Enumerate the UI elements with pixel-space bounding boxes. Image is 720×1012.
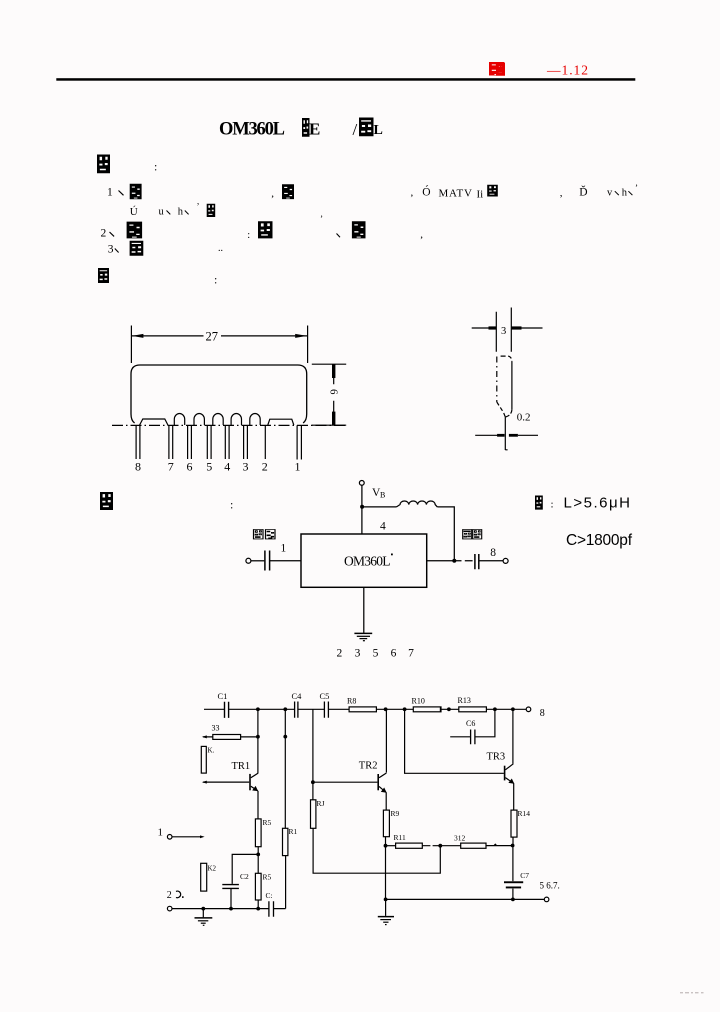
svg-text:C1: C1 xyxy=(218,691,228,701)
svg-text:..: .. xyxy=(218,243,223,254)
wire top rail xyxy=(204,708,526,710)
pin thickness dimension 0.2 xyxy=(475,434,538,436)
transistor Q2 TR2 xyxy=(313,761,387,793)
terminal 2 xyxy=(167,906,172,911)
svg-text:C6: C6 xyxy=(466,719,475,728)
svg-text:L: L xyxy=(374,123,383,138)
svg-text:R5: R5 xyxy=(263,873,272,882)
node output junction xyxy=(452,559,456,563)
wire TR3 collector riser xyxy=(512,709,514,763)
svg-text:Ú: Ú xyxy=(130,206,138,218)
svg-text::: : xyxy=(247,230,250,241)
wire C-out to terminal xyxy=(479,560,503,562)
resistor R11 xyxy=(386,833,441,848)
svg-text:6: 6 xyxy=(187,460,193,474)
pin bumps: left trapezoid xyxy=(140,419,168,425)
tick on rail near R10 right lead xyxy=(440,707,441,712)
node junction VB xyxy=(360,505,364,509)
height dimension "6" xyxy=(312,364,346,425)
transistor Q3 TR3 xyxy=(487,752,515,784)
capacitor C3 xyxy=(266,891,274,917)
ground left xyxy=(195,909,213,926)
svg-text:R8: R8 xyxy=(347,697,356,706)
junction R10 left/TR3 base feed xyxy=(403,707,407,711)
svg-text:h: h xyxy=(178,207,184,218)
svg-text:4: 4 xyxy=(224,460,230,474)
wire R5 to node xyxy=(257,847,259,874)
svg-text:6: 6 xyxy=(328,389,340,395)
capacitor C5 xyxy=(320,691,330,718)
junction C1/TR1 collector xyxy=(256,707,260,711)
svg-text:—1.12: —1.12 xyxy=(546,63,588,78)
svg-text:2: 2 xyxy=(337,648,343,660)
svg-text:R14: R14 xyxy=(518,809,531,818)
svg-text:C:: C: xyxy=(266,891,273,900)
resistor R10 xyxy=(412,697,442,712)
wire to C2 xyxy=(232,854,258,884)
wire bottom-left rail xyxy=(172,908,286,910)
right trapezoid xyxy=(268,419,294,425)
svg-text:3: 3 xyxy=(501,326,506,337)
svg-text:5: 5 xyxy=(206,460,212,474)
ground middle xyxy=(378,899,394,924)
svg-text:L>5.6μH: L>5.6μH xyxy=(564,495,631,512)
svg-text:2: 2 xyxy=(101,228,107,240)
svg-text:’: ’ xyxy=(635,183,638,193)
svg-text:33: 33 xyxy=(212,724,220,733)
svg-text:R11: R11 xyxy=(394,833,406,842)
side profile (dashed outline) xyxy=(501,355,509,357)
svg-text:OM360L: OM360L xyxy=(219,120,285,140)
svg-text::: : xyxy=(230,498,233,512)
wire C-in to pin1 xyxy=(270,560,301,562)
junction ground tap on left rail xyxy=(201,907,205,911)
svg-text:,: , xyxy=(271,188,274,200)
svg-text:R13: R13 xyxy=(458,696,471,705)
svg-text:6: 6 xyxy=(391,648,397,660)
resistor R3 xyxy=(202,724,258,740)
wire bottom rail xyxy=(386,898,545,900)
svg-text:5 6.7.: 5 6.7. xyxy=(540,881,560,891)
junction R13/C6 branch xyxy=(493,707,497,711)
svg-text:R1: R1 xyxy=(289,827,298,836)
junction C2 bottom xyxy=(229,907,233,911)
capacitor C1 xyxy=(218,691,229,718)
junction R9 line/bottom rail xyxy=(384,898,388,902)
resistor R8 xyxy=(347,697,376,712)
svg-text:C4: C4 xyxy=(292,691,303,701)
svg-text:Ii: Ii xyxy=(477,189,484,201)
svg-text:2: 2 xyxy=(262,460,268,474)
svg-text:OM360L: OM360L xyxy=(344,554,391,569)
output label (garbled CJK) xyxy=(463,530,472,539)
wire VB to inductor xyxy=(362,506,396,508)
capacitor C4 xyxy=(292,691,303,718)
node emitter divider xyxy=(256,853,260,857)
note: phi L>5.6uH xyxy=(535,495,633,550)
wire node to C7 xyxy=(512,846,514,882)
svg-text:7: 7 xyxy=(408,648,414,660)
terminal 1 input xyxy=(158,827,205,840)
svg-text:1: 1 xyxy=(107,187,113,199)
svg-text:R5: R5 xyxy=(263,818,272,827)
svg-text::: : xyxy=(214,273,217,287)
top width dimension "27" xyxy=(131,326,307,364)
svg-text::: : xyxy=(551,499,554,511)
svg-text:3: 3 xyxy=(108,244,114,256)
resistor R13 xyxy=(458,696,487,712)
svg-text:4: 4 xyxy=(380,521,386,533)
svg-text:C>1800pf: C>1800pf xyxy=(566,532,633,549)
transistor Q1 TR1 xyxy=(202,761,258,791)
resistor R14 xyxy=(511,809,530,837)
wire pin8 output xyxy=(427,560,473,562)
svg-text:1: 1 xyxy=(295,460,301,474)
ground pins label 2 3 5 6 7 xyxy=(337,648,415,660)
svg-text:1: 1 xyxy=(158,827,164,839)
svg-text:5: 5 xyxy=(373,648,379,660)
resistor R12 xyxy=(440,834,512,849)
svg-text:MATV: MATV xyxy=(439,187,473,199)
pin numbers xyxy=(135,460,301,474)
node R11/R12 xyxy=(438,844,442,848)
svg-text:1: 1 xyxy=(281,543,287,555)
junction R6 bottom xyxy=(256,907,260,911)
terminal pins 5 6 7 xyxy=(544,897,549,902)
svg-text:C7: C7 xyxy=(520,871,529,880)
wire TR2 collector riser xyxy=(385,709,387,772)
pins (double lines) xyxy=(136,425,140,459)
junction TR3 collector xyxy=(511,707,515,711)
svg-text:R10: R10 xyxy=(412,697,425,706)
input terminal xyxy=(246,558,251,563)
svg-text:,: , xyxy=(420,229,423,241)
wire C6 branch xyxy=(450,709,495,737)
svg-text:TR1: TR1 xyxy=(232,761,251,772)
svg-text:,: , xyxy=(321,209,323,219)
wire R7 riser xyxy=(312,709,314,800)
svg-text:TR2: TR2 xyxy=(359,761,378,772)
pin xyxy=(505,417,507,451)
capacitor C-in xyxy=(265,551,270,571)
svg-text:8: 8 xyxy=(135,460,141,474)
resistor R2 xyxy=(201,863,217,891)
node TR2 base junction xyxy=(311,780,315,784)
node VB terminal xyxy=(359,481,364,486)
terminal 2 label xyxy=(167,890,184,901)
junction R8/TR2 collector xyxy=(384,707,388,711)
wire TR3 base feed xyxy=(405,709,504,773)
wire R14 to node xyxy=(512,837,514,845)
input label (garbled CJK) xyxy=(254,530,264,539)
output terminal xyxy=(503,558,508,563)
svg-text:2: 2 xyxy=(167,890,172,901)
wire C3 to R1 xyxy=(285,856,287,909)
round bumps xyxy=(174,414,184,425)
resistor R4 xyxy=(201,746,214,773)
svg-text:K2: K2 xyxy=(208,865,217,873)
IC OM360L xyxy=(301,534,427,587)
ground xyxy=(354,632,372,634)
capacitor C7 xyxy=(504,871,529,899)
package body outline (open bottom) xyxy=(131,365,307,423)
svg-text:u: u xyxy=(159,207,165,218)
svg-text:RJ: RJ xyxy=(317,799,325,808)
center dash-dot line xyxy=(112,424,346,426)
heading 2 xyxy=(98,268,109,283)
capacitor C2 xyxy=(222,872,249,909)
svg-text:C5: C5 xyxy=(320,691,330,701)
wire TR1 collector riser xyxy=(257,709,259,773)
wire VB to pin 4 xyxy=(361,485,363,534)
svg-text:,: , xyxy=(411,187,414,199)
svg-text:B: B xyxy=(380,491,385,500)
thickness dimension "3" xyxy=(496,308,511,352)
resistor R9 xyxy=(383,809,399,837)
svg-text:’: ’ xyxy=(197,202,200,212)
resistor R6 xyxy=(255,873,271,909)
svg-text:0.2: 0.2 xyxy=(517,412,531,424)
svg-text:K.: K. xyxy=(208,747,215,755)
node R12/R14/C7 xyxy=(511,844,515,848)
svg-text:v: v xyxy=(607,188,613,199)
node R3/collector junction xyxy=(256,735,260,739)
terminal 8 xyxy=(526,707,531,712)
svg-text:h: h xyxy=(622,188,628,199)
svg-text:E: E xyxy=(309,120,320,139)
junction C4/R1 riser xyxy=(283,707,287,711)
svg-text:Ď: Ď xyxy=(579,185,587,199)
footer faint marks xyxy=(680,992,704,993)
wire R7 bottom to R11/R12 node xyxy=(313,828,440,873)
svg-text:3: 3 xyxy=(355,648,361,660)
wire ground xyxy=(363,587,365,633)
resistor R1 xyxy=(283,827,298,856)
svg-text:Ó: Ó xyxy=(422,185,430,199)
node R9/R11 xyxy=(384,844,388,848)
junction C7/bottom rail xyxy=(511,898,515,902)
svg-text:R9: R9 xyxy=(391,809,400,818)
heading 3 (application circuit) xyxy=(100,492,113,510)
svg-text:312: 312 xyxy=(454,834,466,843)
capacitor C6 xyxy=(466,719,475,744)
svg-text:3: 3 xyxy=(243,460,249,474)
svg-text:C2: C2 xyxy=(240,872,249,881)
resistor R5 xyxy=(255,818,271,847)
svg-text:/: / xyxy=(353,120,358,139)
junction R10/R13 xyxy=(447,707,451,711)
resistor R7 xyxy=(311,799,325,828)
heading 1 xyxy=(97,155,110,174)
wire input to C-in xyxy=(251,560,264,562)
wire R1 riser xyxy=(284,709,286,828)
svg-text:8: 8 xyxy=(490,547,496,559)
capacitor C-out xyxy=(475,554,479,569)
wire TR3 emitter xyxy=(513,783,515,810)
wire TR2 emitter xyxy=(385,792,387,810)
svg-text::: : xyxy=(154,160,157,174)
inductor L1 xyxy=(397,501,438,507)
svg-text:TR3: TR3 xyxy=(487,752,506,763)
svg-text:8: 8 xyxy=(540,708,545,719)
wire TR1 emitter xyxy=(257,791,259,819)
svg-text:27: 27 xyxy=(206,330,219,344)
svg-text:7: 7 xyxy=(168,460,174,474)
wire R9 to bottom rail xyxy=(385,837,387,899)
node on R1 riser xyxy=(283,735,287,739)
svg-text:,: , xyxy=(560,187,563,199)
wire inductor to output node xyxy=(437,507,454,560)
